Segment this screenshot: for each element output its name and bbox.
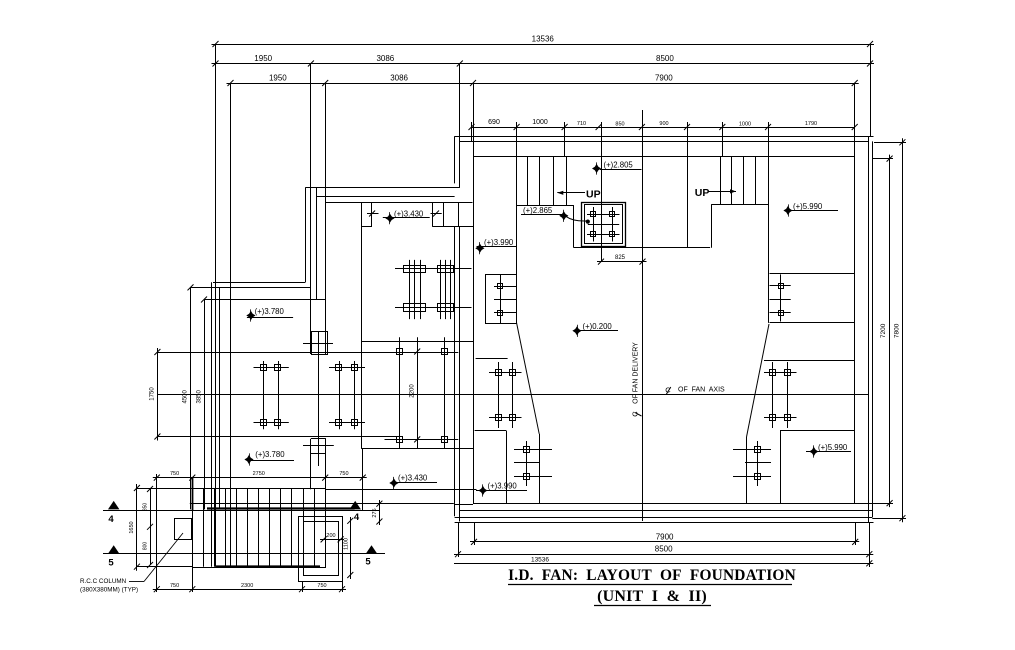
UP label 1 bbox=[557, 189, 600, 201]
strip upper box bbox=[303, 332, 333, 355]
main ledge top bbox=[473, 156, 855, 158]
R.C.C leader bbox=[129, 533, 183, 582]
bar y439 bbox=[385, 439, 459, 441]
dim inner 850/800 bbox=[142, 486, 153, 568]
level 3.780 upper bbox=[246, 307, 293, 322]
svg-text:(+)3.990: (+)3.990 bbox=[488, 482, 518, 491]
section 5 label left bbox=[108, 558, 114, 569]
right fan corner box bbox=[780, 431, 855, 504]
extension line x215 bbox=[215, 44, 217, 567]
level 3.780 lower bbox=[244, 450, 294, 466]
main wall left outer bbox=[454, 136, 456, 516]
pedestal verticals bbox=[594, 207, 613, 242]
dim row3 1950/3086/7900 bbox=[227, 74, 859, 87]
svg-text:750: 750 bbox=[317, 583, 326, 589]
dim 7200 right bbox=[880, 155, 892, 508]
svg-text:710: 710 bbox=[577, 121, 586, 127]
svg-text:(+)3.780: (+)3.780 bbox=[255, 307, 285, 316]
dim 13536 bottom bbox=[454, 557, 873, 567]
R.C.C column square bbox=[175, 519, 192, 540]
title line2 bbox=[597, 588, 707, 605]
section 5 triangle right bbox=[366, 545, 378, 554]
main bottom line1 bbox=[460, 510, 872, 512]
svg-text:13536: 13536 bbox=[531, 557, 549, 564]
extension line x230 bbox=[230, 83, 232, 567]
stair2 bbox=[711, 157, 768, 248]
svg-text:(+)5.990: (+)5.990 bbox=[818, 443, 848, 452]
svg-text:750: 750 bbox=[170, 583, 179, 589]
wall x211 bbox=[211, 282, 213, 566]
right fan wall bbox=[768, 157, 770, 323]
dim 1100 bbox=[343, 517, 353, 579]
bottom dim extensions bbox=[459, 523, 870, 567]
svg-text:2750: 2750 bbox=[253, 471, 265, 477]
svg-text:800: 800 bbox=[142, 542, 148, 551]
svg-text:UP: UP bbox=[586, 189, 601, 201]
duct outer rect bbox=[299, 517, 343, 582]
section 5 triangle left bbox=[108, 545, 120, 554]
bar y352 bbox=[157, 352, 458, 354]
main bottom line2 bbox=[455, 517, 873, 519]
wall x316 bbox=[316, 188, 318, 301]
svg-text:1750: 1750 bbox=[150, 387, 156, 401]
main floor bottom bbox=[473, 503, 868, 505]
fan axis label bbox=[665, 386, 725, 395]
level 3.990 TL bbox=[475, 238, 517, 254]
section 4 triangle left bbox=[108, 501, 120, 510]
main wall left mid bbox=[459, 64, 461, 522]
dim 2200 bbox=[410, 337, 421, 448]
dim small row 690-1790 bbox=[469, 119, 858, 130]
svg-text:1000: 1000 bbox=[532, 119, 548, 126]
svg-text:8500: 8500 bbox=[655, 545, 673, 554]
box 2200 outline bbox=[361, 342, 473, 449]
svg-text:1950: 1950 bbox=[269, 74, 287, 83]
main wall x854 bbox=[854, 83, 856, 503]
left dim extensions bbox=[157, 448, 363, 592]
svg-text:2200: 2200 bbox=[410, 384, 416, 398]
svg-text:200: 200 bbox=[326, 533, 335, 539]
main wall right outer bbox=[868, 136, 870, 522]
box squares bbox=[397, 349, 448, 443]
right fan wall lower bbox=[746, 437, 748, 503]
dim 1750 bbox=[150, 348, 161, 441]
fan delivery centerline bbox=[642, 110, 644, 521]
svg-text:UP: UP bbox=[695, 187, 710, 199]
right fan bay column bbox=[770, 274, 791, 321]
dim 4500 bbox=[182, 284, 193, 509]
svg-text:7900: 7900 bbox=[656, 532, 674, 541]
svg-text:5: 5 bbox=[108, 558, 114, 569]
left fan free columns bbox=[476, 359, 522, 429]
main wall top inner bbox=[460, 141, 869, 143]
main bottom step bbox=[455, 504, 473, 506]
svg-text:5: 5 bbox=[365, 557, 371, 568]
level 3.430 upper bbox=[367, 210, 442, 225]
dim 1650 left bbox=[129, 484, 140, 571]
svg-text:R.C.C COLUMN: R.C.C COLUMN bbox=[80, 578, 127, 585]
title line1 bbox=[508, 567, 796, 584]
level 5.990 BR bbox=[806, 443, 851, 458]
svg-text:1100: 1100 bbox=[343, 538, 349, 550]
svg-text:13536: 13536 bbox=[532, 35, 555, 44]
svg-text:(+)2.805: (+)2.805 bbox=[604, 161, 634, 170]
section 4 label left bbox=[108, 514, 114, 525]
left fan corner box bbox=[475, 431, 507, 504]
wall y202 bbox=[325, 202, 472, 204]
extension x471 bbox=[471, 122, 473, 141]
left fan single columns bbox=[514, 441, 552, 486]
pedestal outer bbox=[582, 203, 626, 247]
dim 13536 top bbox=[212, 35, 875, 48]
R.C.C text bbox=[80, 578, 138, 594]
left dim horiz extensions bbox=[137, 489, 192, 567]
svg-text:(+)3.990: (+)3.990 bbox=[484, 238, 514, 247]
strip lower box bbox=[303, 439, 334, 454]
main bottom line3 bbox=[455, 522, 874, 524]
stair bottom-left bbox=[193, 488, 326, 568]
svg-text:(+)3.430: (+)3.430 bbox=[398, 474, 428, 483]
left fan taper bbox=[517, 323, 540, 434]
beam bar upper bbox=[395, 268, 472, 270]
wall y184 bbox=[305, 187, 460, 189]
svg-text:275: 275 bbox=[372, 508, 378, 517]
svg-text:4: 4 bbox=[108, 514, 114, 525]
section line 5-5 bbox=[103, 553, 385, 555]
step box left bbox=[362, 203, 372, 227]
pedestal dot bbox=[586, 220, 590, 224]
dim 200 bbox=[320, 533, 344, 543]
stair bottom bold edge bbox=[193, 478, 321, 567]
wall x219 bbox=[219, 287, 221, 509]
svg-text:(UNIT I & II): (UNIT I & II) bbox=[597, 588, 707, 605]
svg-text:(+)5.990: (+)5.990 bbox=[793, 202, 823, 211]
small stair bbox=[432, 203, 473, 227]
right dim extension lines bbox=[868, 143, 906, 519]
main wall left inner bbox=[473, 83, 475, 503]
svg-text:1790: 1790 bbox=[805, 121, 817, 127]
section line 4-4 bbox=[103, 510, 380, 512]
wall x361 upper bbox=[361, 203, 363, 342]
svg-text:850: 850 bbox=[615, 122, 624, 128]
title underline1 bbox=[508, 584, 792, 586]
ledge line y489 bbox=[325, 489, 476, 491]
wall x310 bbox=[310, 64, 312, 490]
svg-text:1950: 1950 bbox=[254, 54, 272, 63]
dim 275 bbox=[372, 500, 383, 525]
strip centerline bbox=[318, 331, 320, 466]
dim 8500 bottom bbox=[454, 545, 873, 558]
dim 7900 bottom bbox=[470, 532, 859, 545]
step wall right of stair1 bbox=[574, 205, 711, 247]
main wall right inner bbox=[872, 141, 874, 517]
I-beam column 2 bbox=[438, 260, 454, 319]
svg-text:900: 900 bbox=[659, 121, 668, 127]
svg-text:(380X380MM) (TYP): (380X380MM) (TYP) bbox=[80, 587, 138, 594]
section 4 cut bold bbox=[207, 507, 355, 509]
extension line x870 bbox=[870, 44, 872, 136]
svg-text:1000: 1000 bbox=[739, 122, 751, 128]
I-beam column 1 bbox=[404, 260, 426, 319]
section 4 label right bbox=[354, 512, 360, 523]
svg-text:750: 750 bbox=[170, 471, 179, 477]
svg-text:I.D. FAN: LAYOUT OF FOUNDA: I.D. FAN: LAYOUT OF FOUNDATION bbox=[508, 567, 796, 584]
left fan bay column bbox=[494, 274, 516, 323]
svg-text:4500: 4500 bbox=[182, 389, 188, 403]
svg-text:7200: 7200 bbox=[880, 323, 887, 338]
svg-text:(+)2.865: (+)2.865 bbox=[523, 206, 553, 215]
svg-text:7900: 7900 bbox=[655, 74, 673, 83]
svg-text:3086: 3086 bbox=[390, 74, 408, 83]
pedestal inner bbox=[585, 205, 623, 244]
level 3.430 lower bbox=[389, 474, 437, 490]
main wall x687 bbox=[687, 157, 689, 248]
level 3.990 BL bbox=[476, 482, 527, 497]
pedestal bolts bbox=[591, 212, 615, 237]
extension small dims bbox=[517, 122, 769, 157]
dim 825 bbox=[597, 255, 647, 265]
svg-text:690: 690 bbox=[488, 119, 500, 126]
left fan bay bbox=[486, 275, 517, 324]
wall y287 bbox=[191, 287, 311, 289]
right fan free columns bbox=[764, 361, 855, 429]
wall y299 bbox=[204, 299, 325, 301]
svg-text:2300: 2300 bbox=[241, 583, 253, 589]
title underline2 bbox=[594, 605, 711, 607]
pedestal centerline bbox=[601, 122, 603, 262]
stair1 bbox=[517, 157, 574, 323]
section 4 triangle right bbox=[349, 501, 361, 510]
svg-text:850: 850 bbox=[142, 503, 148, 512]
svg-text:7800: 7800 bbox=[893, 323, 900, 338]
svg-text:(+)0.200: (+)0.200 bbox=[583, 322, 613, 331]
svg-text:4: 4 bbox=[354, 512, 360, 523]
UP label 2 bbox=[695, 187, 736, 199]
dim 750/2750/750 bbox=[153, 471, 367, 480]
fan axis centerline bbox=[157, 394, 868, 396]
svg-text:825: 825 bbox=[615, 255, 626, 261]
dim 3850 bbox=[196, 297, 207, 510]
level 0.200 bbox=[572, 322, 618, 337]
level 5.990 TR bbox=[783, 202, 838, 217]
svg-text:1650: 1650 bbox=[129, 521, 135, 533]
svg-text:8500: 8500 bbox=[656, 54, 674, 63]
column pair B bbox=[329, 361, 365, 429]
svg-text:3850: 3850 bbox=[196, 389, 202, 403]
section 5 label right bbox=[365, 557, 371, 568]
right fan taper bbox=[747, 324, 770, 437]
right fan bay bbox=[770, 274, 856, 323]
right fan single columns bbox=[733, 441, 771, 486]
wall y190 bbox=[316, 196, 454, 198]
svg-text:750: 750 bbox=[339, 471, 348, 477]
beam bar lower bbox=[395, 307, 472, 309]
fan delivery label bbox=[630, 342, 641, 417]
svg-text:OF FAN DELIVERY: OF FAN DELIVERY bbox=[632, 342, 639, 404]
main wall top outer bbox=[455, 136, 874, 138]
wall line y503.5 bbox=[190, 503, 454, 505]
left fan wall lower bbox=[539, 434, 541, 503]
dim 7800 right bbox=[893, 138, 905, 522]
wall x325 bbox=[325, 83, 327, 488]
column pair A bbox=[254, 361, 289, 429]
wall x305 bbox=[305, 188, 307, 283]
dim 750/2300/750 bottom bbox=[153, 583, 346, 592]
pedestal horizontals bbox=[587, 215, 620, 235]
box 2200 verticals bbox=[400, 337, 445, 448]
level 2.865 bbox=[521, 206, 587, 222]
duct inner rect bbox=[304, 522, 339, 576]
level 2.805 bbox=[592, 161, 642, 175]
svg-text:3086: 3086 bbox=[376, 54, 394, 63]
dim row2 1950/3086/8500 bbox=[212, 54, 875, 67]
svg-text:OF FAN AXIS: OF FAN AXIS bbox=[678, 387, 725, 394]
wall y282 bbox=[213, 282, 305, 284]
svg-text:(+)3.780: (+)3.780 bbox=[255, 450, 285, 459]
bar y436 bbox=[157, 436, 399, 438]
